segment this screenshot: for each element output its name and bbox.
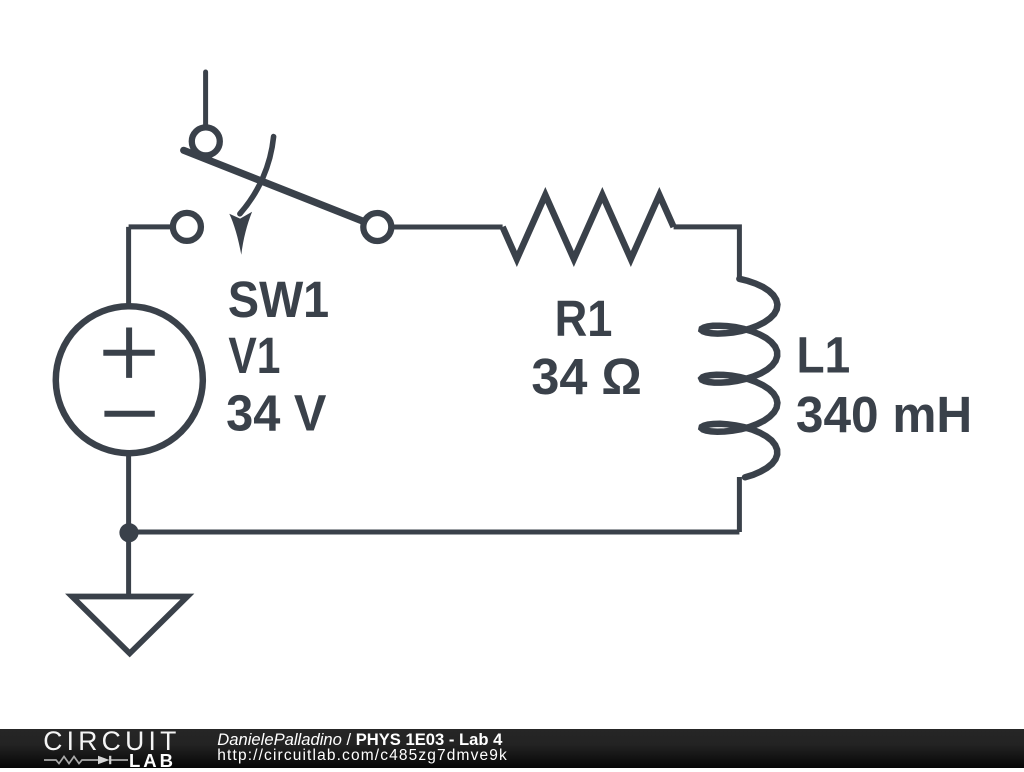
voltage source V1 minus sign xyxy=(104,411,154,417)
svg-text:SW1: SW1 xyxy=(228,271,329,328)
switch SW1 right terminal circle xyxy=(363,213,391,241)
wire bottom horizontal xyxy=(129,530,740,535)
url line xyxy=(217,747,508,765)
logo CIRCUIT xyxy=(43,726,180,757)
svg-text:34 Ω: 34 Ω xyxy=(531,348,642,405)
voltage source V1 plus sign xyxy=(103,328,155,378)
logo LAB xyxy=(129,750,176,772)
svg-text:R1: R1 xyxy=(555,290,613,347)
resistor R1 zigzag xyxy=(503,195,674,259)
wire coil bottom to bottom wire xyxy=(737,477,742,532)
attribution line xyxy=(217,730,502,750)
wire corner down to V1 top xyxy=(126,227,131,310)
wire left circle to corner xyxy=(129,224,187,229)
wire right circle to resistor xyxy=(377,225,502,230)
voltage source V1 circle xyxy=(56,306,203,453)
inductor L1 coil xyxy=(701,279,777,478)
ground symbol xyxy=(72,597,187,654)
switch SW1 top terminal circle xyxy=(192,127,220,155)
wire switch top stub xyxy=(203,72,208,130)
logo squiggle xyxy=(44,753,134,767)
svg-text:34 V: 34 V xyxy=(226,385,326,442)
svg-text:V1: V1 xyxy=(228,327,280,384)
switch SW1 arrowhead xyxy=(229,212,252,255)
junction node xyxy=(119,523,138,542)
switch SW1 left terminal circle xyxy=(173,213,201,241)
wire V1 bottom to ground xyxy=(126,450,131,594)
footer bar xyxy=(0,729,1024,768)
switch SW1 arc arrow xyxy=(240,137,274,214)
switch SW1 blade xyxy=(184,150,368,223)
wire resistor to corner and down xyxy=(674,227,740,280)
svg-text:L1: L1 xyxy=(797,327,851,384)
svg-text:340 mH: 340 mH xyxy=(796,386,972,443)
